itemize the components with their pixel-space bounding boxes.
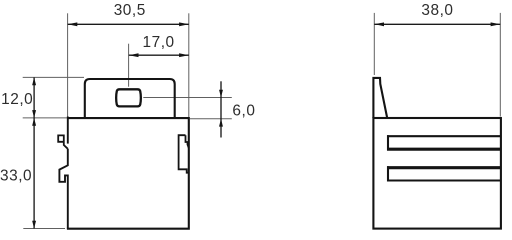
svg-text:6,0: 6,0 — [232, 102, 255, 119]
svg-text:33,0: 33,0 — [0, 168, 32, 185]
svg-text:12,0: 12,0 — [1, 91, 33, 108]
svg-text:17,0: 17,0 — [143, 34, 175, 51]
svg-text:38,0: 38,0 — [421, 2, 453, 19]
svg-text:30,5: 30,5 — [114, 2, 146, 19]
